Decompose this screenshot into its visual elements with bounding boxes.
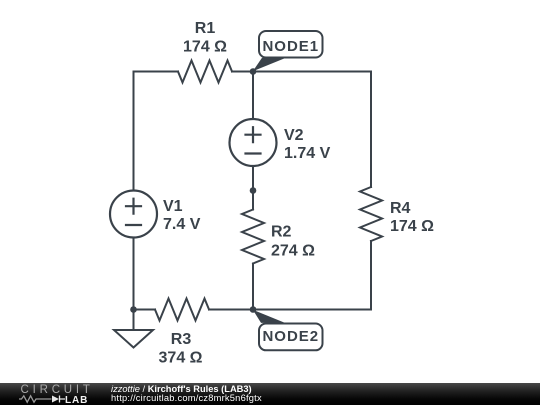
svg-text:V2: V2 (284, 127, 304, 144)
resistor R3 (155, 299, 209, 321)
node label NODE2 (259, 324, 323, 351)
CircuitLab logo resistor-diode symbol (0, 383, 100, 405)
NODE2 callout pointer (253, 310, 285, 323)
resistor R2 (242, 210, 264, 264)
wire: bottom rail right segment (209, 309, 371, 311)
label V2 (284, 127, 331, 162)
svg-text:NODE1: NODE1 (262, 38, 319, 55)
svg-text:374 Ω: 374 Ω (159, 350, 203, 367)
wire: right branch upper (370, 72, 372, 188)
junction dot: below V2 (250, 187, 257, 194)
resistor R1 (178, 61, 232, 83)
svg-text:R3: R3 (171, 331, 192, 348)
svg-text:V1: V1 (163, 198, 183, 215)
svg-text:7.4 V: 7.4 V (163, 216, 201, 233)
label V1 (163, 198, 201, 233)
junction dot: NODE2 (250, 306, 257, 313)
credit text (111, 385, 262, 403)
svg-text:R1: R1 (195, 20, 216, 37)
svg-text:174 Ω: 174 Ω (390, 218, 434, 235)
ground (114, 330, 153, 348)
wire: V1 to bottom rail (133, 238, 135, 310)
svg-text:R4: R4 (390, 200, 411, 217)
label R3 (159, 331, 203, 367)
wire: ground stub (133, 310, 135, 331)
CircuitLab logo wordmark CIRCUIT (21, 384, 94, 396)
svg-text:1.74 V: 1.74 V (284, 145, 331, 162)
wire: left branch upper (133, 72, 135, 191)
wire: V2 to R2 (252, 166, 254, 210)
junction dot: ground node (130, 306, 137, 313)
resistor R4 (360, 187, 382, 241)
svg-text:R2: R2 (271, 224, 292, 241)
wire: middle branch top (252, 72, 254, 120)
label R2 (271, 224, 315, 260)
footer bar (0, 383, 540, 405)
wire: top rail right segment (232, 71, 371, 73)
node label NODE1 (259, 31, 323, 58)
svg-text:NODE2: NODE2 (262, 328, 319, 345)
CircuitLab logo wordmark LAB (65, 395, 88, 406)
wire: bottom rail left segment (134, 309, 156, 311)
svg-text:274 Ω: 274 Ω (271, 243, 315, 260)
svg-text:174 Ω: 174 Ω (183, 39, 227, 56)
label R4 (390, 200, 434, 235)
wire: R4 to bottom rail (370, 241, 372, 310)
NODE1 callout pointer (253, 58, 286, 72)
voltage source V2 (230, 119, 277, 166)
junction dot: NODE1 (250, 68, 257, 75)
wire: R2 to bottom rail (252, 264, 254, 310)
label R1 (183, 20, 227, 56)
voltage source V1 (110, 191, 157, 238)
wire: top rail left segment (134, 71, 179, 73)
